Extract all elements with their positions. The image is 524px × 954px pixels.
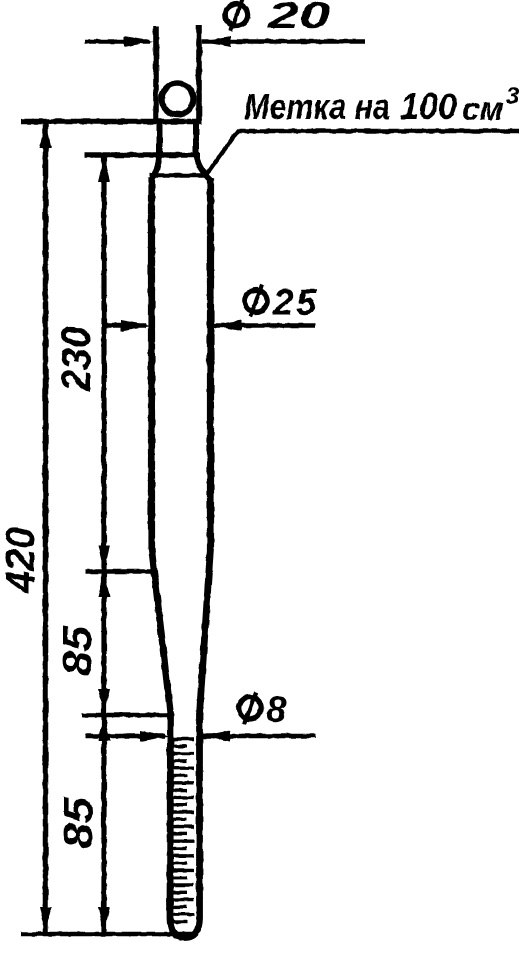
extension line right of mouth / vessel mouth right wall [196, 25, 202, 123]
dimension line 230+85+85 (vertical) [98, 156, 110, 933]
svg-text:25: 25 [272, 282, 319, 323]
right shoulder [196, 156, 211, 180]
svg-text:см: см [462, 91, 504, 127]
svg-text:420: 420 [0, 527, 43, 594]
dimension text Ф20 [223, 0, 331, 36]
100 cm3 mark line [150, 173, 209, 178]
svg-text:85: 85 [55, 796, 101, 849]
taper right wall [200, 548, 211, 714]
neck left wall [157, 121, 163, 156]
float ball [162, 83, 194, 115]
svg-text:8: 8 [266, 689, 287, 730]
graduation ticks [173, 739, 195, 922]
extension line 230/85 boundary [85, 569, 152, 574]
svg-text:85: 85 [54, 625, 100, 676]
dimension line Ф25 [102, 320, 315, 331]
dimension line Ф8 [85, 731, 316, 742]
left shoulder [152, 156, 160, 180]
main tube right wall [207, 178, 214, 550]
dimension line Ф20 [85, 36, 365, 47]
svg-text:Метка на: Метка на [244, 86, 390, 127]
leader line for mark label [205, 130, 519, 177]
neck right wall [193, 121, 199, 156]
svg-text:230: 230 [53, 326, 99, 392]
taper left wall [152, 548, 171, 714]
extension line left of mouth / vessel mouth left wall [153, 26, 159, 123]
extension line bottom (420 / 85) [21, 932, 195, 937]
main tube left wall [148, 178, 155, 550]
svg-text:100: 100 [400, 86, 457, 127]
dimension text Ф25 [242, 282, 319, 323]
extension line 85/85 boundary [82, 713, 172, 718]
dimension text Ф8 [236, 689, 287, 730]
svg-text:3: 3 [506, 83, 520, 110]
narrow tube with round bottom [170, 713, 200, 938]
extension line top of 230 / neck bottom shelf [84, 152, 200, 158]
extension line top of 420 / neck top shelf [21, 119, 202, 125]
svg-text:20: 20 [266, 0, 330, 36]
label Метка на 100 см3 [244, 83, 520, 127]
dimension line 420 (vertical, far left) [40, 122, 52, 933]
